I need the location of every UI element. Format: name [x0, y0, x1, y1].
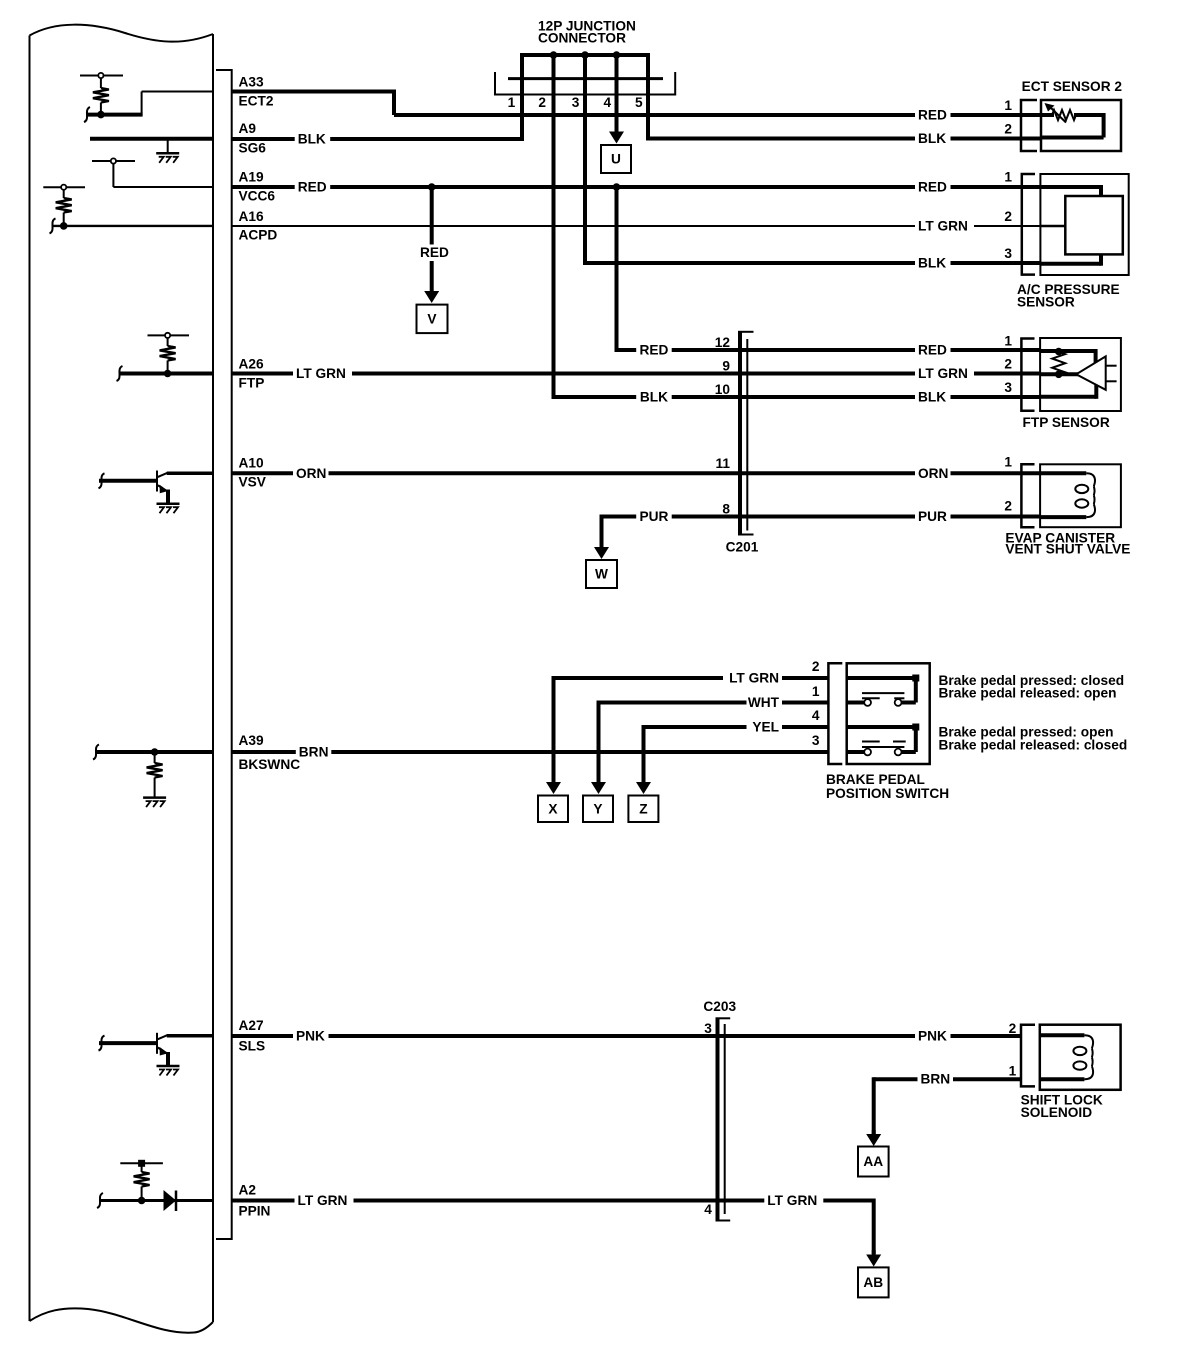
svg-text:1: 1 — [1004, 98, 1012, 113]
wire A26 internal — [117, 366, 123, 381]
svg-text:LT GRN: LT GRN — [767, 1193, 817, 1208]
offpage reference U — [601, 145, 631, 173]
svg-text:3: 3 — [1004, 380, 1012, 395]
wire RED branch down to FTP row — [615, 187, 619, 352]
node A2 internal junction — [138, 1197, 146, 1205]
wire A16 internal — [50, 218, 56, 233]
wire A33 internal step — [141, 92, 143, 116]
switch 1 (normally open) brake switch — [847, 676, 916, 680]
svg-text:A19: A19 — [239, 170, 264, 185]
svg-text:Y: Y — [593, 801, 602, 816]
FTP sensor internals — [1040, 349, 1096, 353]
svg-text:3: 3 — [812, 733, 820, 748]
svg-text:BLK: BLK — [918, 390, 946, 405]
wire LT GRN to brake switch pin 2 — [554, 676, 829, 680]
svg-text:3: 3 — [704, 1021, 712, 1036]
svg-text:BRAKE PEDAL: BRAKE PEDAL — [826, 772, 925, 787]
svg-text:Brake pedal released: open: Brake pedal released: open — [939, 686, 1117, 701]
svg-text:12: 12 — [715, 335, 731, 350]
svg-text:3: 3 — [572, 95, 580, 110]
offpage reference W — [586, 560, 617, 588]
resistor A39 to ground — [154, 752, 156, 763]
svg-text:C203: C203 — [703, 999, 736, 1014]
ECT SENSOR 2 box — [1041, 100, 1121, 151]
svg-text:V: V — [427, 311, 437, 326]
svg-text:SOLENOID: SOLENOID — [1021, 1105, 1093, 1120]
svg-text:Z: Z — [639, 801, 647, 816]
solenoid coil shift lock — [1040, 1033, 1085, 1037]
wire 12P pin5 to ECT sensor BLK — [646, 55, 650, 139]
junction dot RED branch V — [428, 183, 436, 191]
svg-text:PPIN: PPIN — [239, 1204, 271, 1219]
A/C pressure sensor connector tab — [1022, 174, 1035, 275]
switch 2 (normally closed) brake switch — [847, 725, 916, 729]
svg-text:4: 4 — [603, 95, 611, 110]
svg-text:ORN: ORN — [918, 466, 948, 481]
svg-text:A10: A10 — [239, 456, 264, 471]
wire 12P pin3 down — [583, 55, 587, 265]
svg-text:BRN: BRN — [299, 745, 329, 760]
resistor FTP internal — [1052, 352, 1065, 375]
svg-text:8: 8 — [722, 502, 730, 517]
FTP sensor box — [1040, 338, 1121, 411]
wire BLK 12P pin2 to C201 pin 10 and FTP pin 3 — [554, 395, 1042, 399]
svg-text:BKSWNC: BKSWNC — [239, 757, 301, 772]
wire A33 internal — [84, 107, 90, 122]
svg-text:POSITION SWITCH: POSITION SWITCH — [826, 786, 949, 801]
svg-text:PUR: PUR — [918, 509, 947, 524]
svg-text:10: 10 — [715, 382, 731, 397]
svg-text:SG6: SG6 — [239, 141, 267, 156]
wire PPIN/LT GRN to C203 pin 4 — [232, 1199, 874, 1203]
svg-text:A2: A2 — [239, 1183, 257, 1198]
svg-text:X: X — [548, 801, 558, 816]
svg-text:4: 4 — [704, 1202, 712, 1217]
svg-text:RED: RED — [640, 343, 669, 358]
wire 12P pin2 down — [552, 55, 556, 399]
svg-text:1: 1 — [812, 684, 820, 699]
A/C pressure sensor internals — [1040, 185, 1101, 189]
ECT SENSOR 2 connector tab — [1021, 100, 1037, 151]
svg-text:LT GRN: LT GRN — [298, 1193, 348, 1208]
wire 12P pin4 to U — [615, 55, 619, 134]
junction dot bus pin4 — [613, 51, 621, 59]
FTP sensor connector tab — [1021, 339, 1034, 411]
node A16 internal junction — [60, 222, 68, 230]
svg-text:FTP SENSOR: FTP SENSOR — [1023, 415, 1110, 430]
brake switch box — [847, 663, 930, 764]
svg-text:ACPD: ACPD — [239, 228, 278, 243]
junction dot RED branch FTP — [613, 183, 621, 191]
wire RED to C201 pin 12 and FTP pin 1 — [617, 348, 1042, 352]
12P junction bus bar — [520, 53, 650, 57]
resistor pull-up A16 internal — [43, 186, 85, 188]
svg-text:PUR: PUR — [640, 509, 669, 524]
svg-text:ORN: ORN — [296, 466, 326, 481]
12P connector body — [508, 77, 663, 80]
svg-text:SENSOR: SENSOR — [1017, 295, 1075, 310]
svg-text:VCC6: VCC6 — [239, 189, 276, 204]
svg-text:RED: RED — [420, 245, 449, 260]
terminal VCC6 internal — [92, 160, 135, 162]
wire BKSWNC/BRN to brake switch pin 3 — [232, 750, 829, 754]
wire PUR to C201 pin 8 and EVAP pin 2 — [602, 515, 1042, 519]
svg-text:A26: A26 — [239, 357, 264, 372]
svg-text:LT GRN: LT GRN — [296, 366, 346, 381]
svg-text:RED: RED — [298, 180, 327, 195]
svg-text:1: 1 — [1004, 334, 1012, 349]
svg-text:SLS: SLS — [239, 1039, 266, 1054]
svg-text:4: 4 — [812, 708, 820, 723]
svg-text:2: 2 — [1009, 1021, 1017, 1036]
wire BRN solenoid pin 1 to AA — [874, 1077, 1021, 1081]
wire SG6/BLK to 12P pin 1 — [232, 137, 524, 141]
svg-text:LT GRN: LT GRN — [918, 219, 968, 234]
wire VCC6/RED to A/C pressure sensor pin 1 — [232, 185, 1041, 189]
wire FTP/LT GRN to C201 pin 9 and FTP pin 2 — [232, 372, 1041, 376]
svg-text:BRN: BRN — [921, 1072, 951, 1087]
svg-text:BLK: BLK — [918, 256, 946, 271]
thermistor ECT2 internal — [1041, 113, 1054, 117]
resistor pull-up (A33 internal) — [80, 75, 123, 77]
EVAP valve box — [1040, 464, 1121, 527]
svg-text:ECT2: ECT2 — [239, 94, 274, 109]
svg-text:RED: RED — [918, 343, 947, 358]
svg-text:A33: A33 — [239, 75, 264, 90]
svg-text:2: 2 — [812, 659, 820, 674]
brake switch connector tab — [828, 663, 842, 764]
wire ECT2/RED to ECT sensor 2 pin 1 — [394, 113, 1041, 117]
wire WHT to brake switch pin 1 — [599, 701, 829, 705]
connector C203 — [716, 1018, 720, 1220]
wire BLK 12P pin3 to A/C pressure sensor pin 3 — [583, 261, 1041, 265]
offpage reference X — [538, 796, 568, 823]
ground A27 emitter — [166, 1052, 170, 1066]
offpage reference AA — [858, 1147, 889, 1177]
ECM/PCM box outline (torn edges) — [30, 25, 214, 42]
svg-text:ECT SENSOR 2: ECT SENSOR 2 — [1022, 79, 1123, 94]
EVAP valve connector tab — [1021, 464, 1034, 527]
svg-text:AA: AA — [863, 1154, 883, 1169]
svg-text:11: 11 — [716, 456, 731, 471]
svg-text:3: 3 — [1004, 246, 1012, 261]
wire ACPD/LT GRN to A/C pressure sensor pin 2 — [232, 225, 1041, 227]
svg-text:VSV: VSV — [239, 475, 267, 490]
svg-text:RED: RED — [918, 180, 947, 195]
svg-text:2: 2 — [1004, 122, 1012, 137]
wire A2 internal — [97, 1193, 103, 1208]
svg-text:YEL: YEL — [752, 720, 779, 735]
svg-text:5: 5 — [635, 95, 643, 110]
shift lock solenoid box — [1040, 1025, 1121, 1090]
transistor A27 internal — [156, 1033, 158, 1054]
transistor A10 internal — [156, 471, 158, 492]
svg-text:1: 1 — [1004, 455, 1012, 470]
svg-text:VENT SHUT VALVE: VENT SHUT VALVE — [1005, 542, 1130, 557]
svg-text:PNK: PNK — [918, 1029, 947, 1044]
svg-text:BLK: BLK — [918, 131, 946, 146]
svg-text:A16: A16 — [239, 209, 264, 224]
svg-text:A9: A9 — [239, 121, 257, 136]
svg-text:A39: A39 — [239, 733, 264, 748]
svg-text:RED: RED — [918, 108, 947, 123]
wire A10 collector — [167, 472, 213, 476]
wire LT GRN branch to X — [552, 676, 556, 770]
ground SG6 internal — [90, 137, 213, 141]
svg-text:W: W — [595, 567, 608, 582]
svg-text:C201: C201 — [726, 540, 759, 555]
wire A27 base — [99, 1036, 105, 1051]
ground A10 emitter — [166, 490, 170, 504]
wire LT GRN branch to AB — [872, 1199, 876, 1255]
svg-text:BLK: BLK — [640, 390, 668, 405]
wire A27 collector — [167, 1034, 213, 1038]
diode A2 internal — [164, 1190, 177, 1211]
svg-text:9: 9 — [722, 359, 730, 374]
svg-text:U: U — [611, 152, 621, 167]
svg-text:CONNECTOR: CONNECTOR — [538, 31, 626, 46]
node A26 internal junction — [164, 370, 172, 378]
wire A39 internal — [93, 745, 99, 760]
junction dot bus pin2 — [550, 51, 558, 59]
wire RED branch to V — [430, 187, 434, 245]
wire BRN branch down — [872, 1077, 876, 1134]
svg-text:AB: AB — [863, 1275, 883, 1290]
wire BLK 12P pin5 to ECT sensor 2 pin 2 — [646, 137, 1041, 141]
solenoid coil EVAP — [1040, 471, 1086, 475]
wire ECT2 to junction step — [232, 90, 396, 94]
junction dot bus pin3 — [581, 51, 589, 59]
node A39 internal junction — [151, 748, 159, 756]
svg-text:2: 2 — [1004, 499, 1012, 514]
svg-text:2: 2 — [1004, 357, 1012, 372]
wire SLS/PNK to C203 pin 3 and solenoid pin 2 — [232, 1034, 1021, 1038]
svg-text:LT GRN: LT GRN — [918, 366, 968, 381]
wire VSV/ORN to C201 pin 11 and EVAP pin 1 — [232, 471, 1041, 475]
resistor A2 internal — [120, 1162, 163, 1164]
A/C pressure sensor box — [1040, 174, 1128, 275]
svg-text:2: 2 — [1004, 209, 1012, 224]
ECM connector bracket — [216, 70, 232, 1239]
wire A10 base — [99, 473, 105, 488]
svg-text:2: 2 — [538, 95, 546, 110]
wire WHT branch to Y — [597, 701, 601, 771]
wire PUR branch to W — [600, 515, 604, 548]
offpage reference V — [417, 305, 448, 334]
connector C201 — [738, 332, 742, 535]
svg-text:FTP: FTP — [239, 376, 265, 391]
wire YEL to brake switch pin 4 — [644, 725, 829, 729]
offpage reference Z — [628, 796, 658, 823]
svg-text:Brake pedal released: closed: Brake pedal released: closed — [939, 738, 1128, 753]
resistor pull-up A26 internal — [148, 334, 190, 336]
offpage reference AB — [858, 1267, 889, 1297]
shift lock solenoid connector tab — [1021, 1025, 1035, 1087]
svg-text:A27: A27 — [239, 1018, 264, 1033]
svg-text:1: 1 — [1004, 170, 1012, 185]
wire YEL branch to Z — [642, 725, 646, 770]
svg-text:BLK: BLK — [298, 132, 326, 147]
svg-text:1: 1 — [1009, 1064, 1017, 1079]
svg-text:PNK: PNK — [296, 1029, 325, 1044]
svg-text:LT GRN: LT GRN — [729, 671, 779, 686]
svg-text:WHT: WHT — [748, 695, 780, 710]
node A33 internal junction — [97, 111, 105, 119]
svg-text:1: 1 — [508, 95, 516, 110]
wire 12P pin1 to BLK — [520, 55, 524, 141]
offpage reference Y — [583, 796, 613, 823]
